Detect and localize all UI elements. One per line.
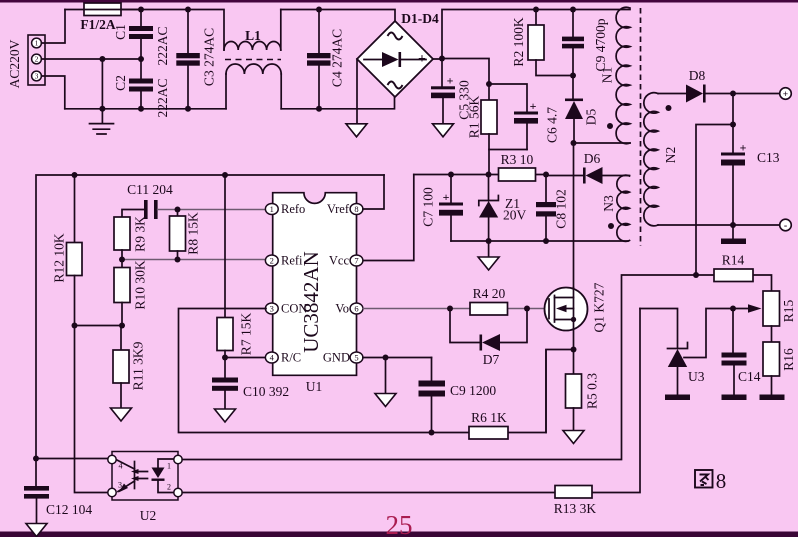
- node C5 top: [439, 56, 445, 62]
- svg-text:R3 10: R3 10: [501, 152, 534, 167]
- diode D7: [450, 309, 527, 368]
- node C8 bottom: [543, 238, 549, 244]
- resistor R9 3K: [114, 216, 148, 260]
- svg-text:C1: C1: [113, 24, 128, 40]
- svg-text:25: 25: [386, 510, 413, 537]
- svg-text:N2: N2: [663, 147, 678, 164]
- bridge rectifier D1-D4: [357, 11, 439, 97]
- svg-text:+: +: [740, 141, 747, 155]
- svg-text:8: 8: [354, 204, 358, 214]
- svg-text:C13: C13: [757, 150, 780, 165]
- node R8 bottom: [175, 257, 181, 263]
- fuse F1/2A: [65, 3, 141, 32]
- transformer primary N1: [600, 7, 631, 143]
- node C4 bottom: [316, 106, 322, 112]
- node D8/C13: [730, 91, 736, 97]
- ground (triangle) aux: [478, 241, 499, 270]
- svg-text:8: 8: [716, 469, 727, 493]
- svg-text:U2: U2: [140, 508, 157, 523]
- capacitor C10 392: [212, 358, 289, 410]
- node gate/R4 right: [524, 306, 530, 312]
- svg-text:20V: 20V: [503, 208, 527, 223]
- node C3 top: [185, 7, 191, 13]
- resistor R4 20: [470, 286, 508, 315]
- svg-text:N1: N1: [600, 67, 615, 84]
- svg-text:222AC: 222AC: [155, 78, 170, 117]
- svg-text:3: 3: [270, 304, 274, 314]
- svg-text:R8 15K: R8 15K: [186, 212, 201, 255]
- node feedback tap: [730, 122, 736, 128]
- svg-text:6: 6: [354, 304, 358, 314]
- resistor R10 30K: [114, 260, 148, 326]
- ground (triangle) under R5: [563, 431, 584, 444]
- ground (triangle) under C10: [215, 409, 236, 422]
- svg-text:AC220V: AC220V: [7, 39, 22, 88]
- node R2/C9/D5: [570, 73, 576, 79]
- node R7 top: [222, 172, 228, 178]
- svg-text:C2: C2: [113, 75, 128, 91]
- wire Vref rail: [36, 175, 384, 459]
- capacitor C7 100 (electrolytic): [421, 175, 464, 242]
- svg-text:U3: U3: [688, 369, 705, 384]
- wire pin8 Vref: [363, 175, 384, 209]
- svg-text:+: +: [530, 99, 537, 113]
- wire U3 ref to wiper node: [684, 309, 733, 358]
- svg-text:R13 3K: R13 3K: [554, 501, 597, 516]
- svg-text:Vo: Vo: [335, 302, 349, 316]
- wire drain column: [573, 143, 575, 288]
- svg-text:R9 3K: R9 3K: [133, 216, 148, 252]
- svg-text:D6: D6: [584, 151, 601, 166]
- wire pin3 to bottom rail: [41, 76, 64, 109]
- wire bridge + to DC rail: [433, 10, 630, 60]
- terminal + output: [780, 88, 792, 100]
- ground (3-bar) under AC neutral: [90, 59, 114, 134]
- diode D6: [546, 151, 630, 184]
- wire left rail to U2 pin4: [36, 458, 112, 460]
- resistor R7 15K: [217, 175, 254, 358]
- node C9 top: [570, 7, 576, 13]
- resistor R6 1K: [469, 410, 508, 439]
- resistor R11 3K9: [113, 326, 146, 409]
- capacitor C9 1200: [419, 358, 497, 433]
- capacitor C14: [722, 309, 761, 395]
- node C4 top: [316, 7, 322, 13]
- shunt regulator U3: [640, 309, 705, 395]
- node C3 bottom: [185, 106, 191, 112]
- pin 4 U1: [265, 352, 278, 363]
- capacitor C9 4700p: [562, 10, 608, 76]
- svg-text:R1 56K: R1 56K: [467, 96, 482, 139]
- pin 7 U1: [350, 255, 363, 266]
- diode D5: [565, 76, 599, 144]
- svg-text:GND: GND: [323, 351, 350, 365]
- wire pin6 Vo gate line: [363, 308, 549, 310]
- pin 1 U1: [265, 204, 278, 215]
- svg-text:CON: CON: [281, 302, 307, 316]
- svg-text:+: +: [447, 74, 454, 88]
- svg-text:C12 104: C12 104: [46, 502, 92, 517]
- pin 3 U1: [265, 303, 278, 314]
- capacitor C2 222AC: [113, 59, 170, 118]
- resistor R13 3K: [554, 486, 597, 517]
- node pin2/ground column: [99, 56, 105, 62]
- node C1 top: [138, 7, 144, 13]
- node neutral/ground: [99, 106, 105, 112]
- pin 5 U1: [350, 352, 363, 363]
- wire pin5 GND: [363, 357, 432, 359]
- wire source to R6 branch: [546, 350, 574, 433]
- svg-text:-: -: [784, 221, 787, 232]
- svg-text:+: +: [783, 90, 788, 100]
- ground (bar) under C14: [722, 395, 747, 401]
- svg-text:R15: R15: [781, 300, 796, 323]
- svg-text:R/C: R/C: [281, 351, 301, 365]
- pin 6 U1: [350, 303, 363, 314]
- capacitor C12 104: [24, 459, 92, 525]
- svg-text:Q1 K727: Q1 K727: [592, 282, 607, 332]
- wire divider to pin2: [122, 259, 266, 261]
- svg-text:D8: D8: [689, 68, 706, 83]
- wire R1/C6 bottom to Vcc line: [488, 150, 490, 175]
- ground (triangle) under R11: [111, 408, 132, 421]
- zener Z1 20V: [479, 175, 527, 242]
- svg-text:R7 15K: R7 15K: [239, 313, 254, 356]
- node R2 top: [533, 7, 539, 13]
- svg-text:R4 20: R4 20: [473, 286, 506, 301]
- node gate/R4 left: [447, 306, 453, 312]
- svg-text:4: 4: [119, 462, 123, 471]
- svg-text:F1/2A: F1/2A: [80, 17, 115, 32]
- transistor Q1 K727 MOSFET: [545, 282, 607, 349]
- wire C11/R8 to pin1: [158, 209, 266, 211]
- svg-text:7: 7: [354, 256, 358, 266]
- node Z1 bottom: [486, 238, 492, 244]
- wire U2 pin1 to R14 node: [182, 275, 696, 460]
- svg-text:R11 3K9: R11 3K9: [131, 341, 146, 390]
- svg-text:+: +: [443, 190, 450, 204]
- node C2 bottom: [138, 106, 144, 112]
- transformer winding N3: [601, 175, 630, 241]
- svg-text:Vcc: Vcc: [329, 254, 350, 268]
- svg-text:222AC: 222AC: [155, 26, 170, 65]
- svg-text:3: 3: [35, 72, 39, 81]
- capacitor C6 4.7 (electrolytic): [489, 84, 560, 150]
- diode D8: [658, 68, 780, 103]
- potentiometer R15: [733, 291, 796, 326]
- svg-text:4: 4: [270, 353, 275, 363]
- node C7 top: [448, 172, 454, 178]
- capacitor C13 (electrolytic): [721, 94, 780, 226]
- svg-text:C9 1200: C9 1200: [450, 383, 496, 398]
- svg-text:2: 2: [167, 483, 171, 492]
- svg-text:N3: N3: [601, 195, 616, 212]
- node C1/C2 junction: [138, 56, 144, 62]
- svg-text:C14: C14: [738, 369, 761, 384]
- inductor L1 common-mode choke: [224, 10, 281, 109]
- svg-text:U1: U1: [306, 379, 323, 394]
- ground (bar) under R16: [760, 395, 785, 401]
- ground (triangle) pin5: [375, 358, 396, 407]
- ground (triangle) under C5: [433, 124, 454, 137]
- wire U2 pin2 to R13 to U3 cathode: [182, 309, 640, 493]
- svg-text:D1-D4: D1-D4: [401, 11, 439, 26]
- svg-text:1: 1: [270, 204, 274, 214]
- svg-text:2: 2: [35, 55, 39, 64]
- resistor R2 100K: [511, 10, 573, 76]
- svg-text:C11 204: C11 204: [127, 182, 173, 197]
- svg-text:C9 4700p: C9 4700p: [593, 18, 608, 71]
- wire Vcc line: [414, 174, 546, 176]
- svg-text:R10 30K: R10 30K: [133, 260, 148, 309]
- svg-text:Refi: Refi: [281, 254, 303, 268]
- wire Vcc to pin7: [363, 175, 414, 261]
- svg-text:1: 1: [167, 462, 171, 471]
- node C8 top: [543, 172, 549, 178]
- wire aux bottom line: [451, 240, 628, 242]
- wire top rail to bridge: [281, 10, 395, 22]
- capacitor C11 204: [122, 182, 173, 219]
- node R9/R10: [119, 257, 125, 263]
- node R8 top: [175, 207, 181, 213]
- svg-text:R2 100K: R2 100K: [511, 17, 526, 66]
- resistor R8 15K: [170, 210, 201, 260]
- wire pin3 CON loop: [179, 309, 547, 433]
- svg-text:1: 1: [35, 39, 39, 48]
- svg-text:C10 392: C10 392: [243, 384, 289, 399]
- capacitor C3 274AC: [176, 10, 216, 110]
- svg-text:C4 274AC: C4 274AC: [330, 29, 345, 87]
- svg-text:5: 5: [354, 353, 358, 363]
- node Q1 source: [571, 347, 577, 353]
- wire pin2 to C1/C2 node: [41, 58, 141, 60]
- resistor R12 10K: [52, 175, 83, 326]
- capacitor C1 222AC: [113, 10, 170, 66]
- svg-text:R6 1K: R6 1K: [471, 410, 507, 425]
- node R12 top: [72, 172, 78, 178]
- connector AC220V J1: [7, 35, 45, 88]
- resistor R5 0.3: [566, 350, 600, 431]
- svg-text:R5 0.3: R5 0.3: [585, 373, 600, 409]
- resistor R16: [763, 326, 796, 395]
- resistor R3 10: [499, 152, 536, 181]
- svg-text:3: 3: [118, 481, 122, 490]
- pin 8 U1: [350, 204, 363, 215]
- optocoupler U2: [108, 452, 182, 524]
- capacitor C5 330 (electrolytic): [431, 59, 472, 124]
- svg-text:D7: D7: [483, 352, 500, 367]
- svg-text:R16: R16: [781, 348, 796, 371]
- svg-text:C7 100: C7 100: [421, 187, 436, 227]
- node C12 top: [33, 456, 39, 462]
- resistor R1 56K: [467, 81, 528, 150]
- ground (triangle) under C12: [26, 524, 47, 537]
- node Z1 top: [486, 172, 492, 178]
- transformer secondary N2: [644, 93, 678, 226]
- svg-text:R14: R14: [722, 253, 745, 268]
- capacitor C8 102: [536, 175, 569, 242]
- wire top AC rail: [121, 10, 224, 51]
- capacitor C4 274AC: [307, 10, 345, 109]
- svg-text:C6 4.7: C6 4.7: [545, 107, 560, 143]
- node D5 anode / N1 bottom: [571, 140, 577, 146]
- wire N1 bottom: [574, 142, 631, 144]
- ground (triangle) at bridge negative: [346, 59, 367, 137]
- op-amp/PWM IC U1 UC3842AN: [265, 193, 363, 394]
- wire bottom AC rail: [65, 97, 395, 109]
- svg-text:C8 102: C8 102: [554, 189, 569, 228]
- wire + node to R1: [442, 59, 489, 85]
- svg-text:+: +: [418, 52, 426, 67]
- node R14 left: [693, 272, 699, 278]
- wire R7/C10 to pin4: [225, 357, 266, 359]
- ground (bar) under C13: [721, 225, 746, 244]
- wire junction down to U2 pin3: [75, 326, 113, 493]
- svg-text:D5: D5: [584, 109, 599, 126]
- transformer core (dashed): [640, 8, 642, 246]
- terminal - output: [780, 219, 792, 231]
- wire R12/R10 junction: [75, 325, 123, 327]
- wire tap to R14: [696, 125, 733, 276]
- resistor R14: [696, 253, 772, 292]
- wire pin1 to fuse: [41, 10, 65, 44]
- svg-text:2: 2: [270, 256, 274, 266]
- svg-text:R12 10K: R12 10K: [52, 233, 67, 282]
- node C13 bottom: [730, 222, 736, 228]
- ground (bar) under U3: [665, 395, 690, 401]
- svg-text:Vref: Vref: [327, 202, 350, 216]
- pin 2 U1: [265, 255, 278, 266]
- node wiper/C14: [730, 306, 736, 312]
- svg-text:C3 274AC: C3 274AC: [202, 28, 217, 86]
- wire N2 bottom to - terminal: [658, 224, 780, 226]
- node C9-1200 bottom: [429, 430, 435, 436]
- label figure 8 (drawn glyph): [695, 470, 713, 488]
- svg-text:Refo: Refo: [281, 202, 305, 216]
